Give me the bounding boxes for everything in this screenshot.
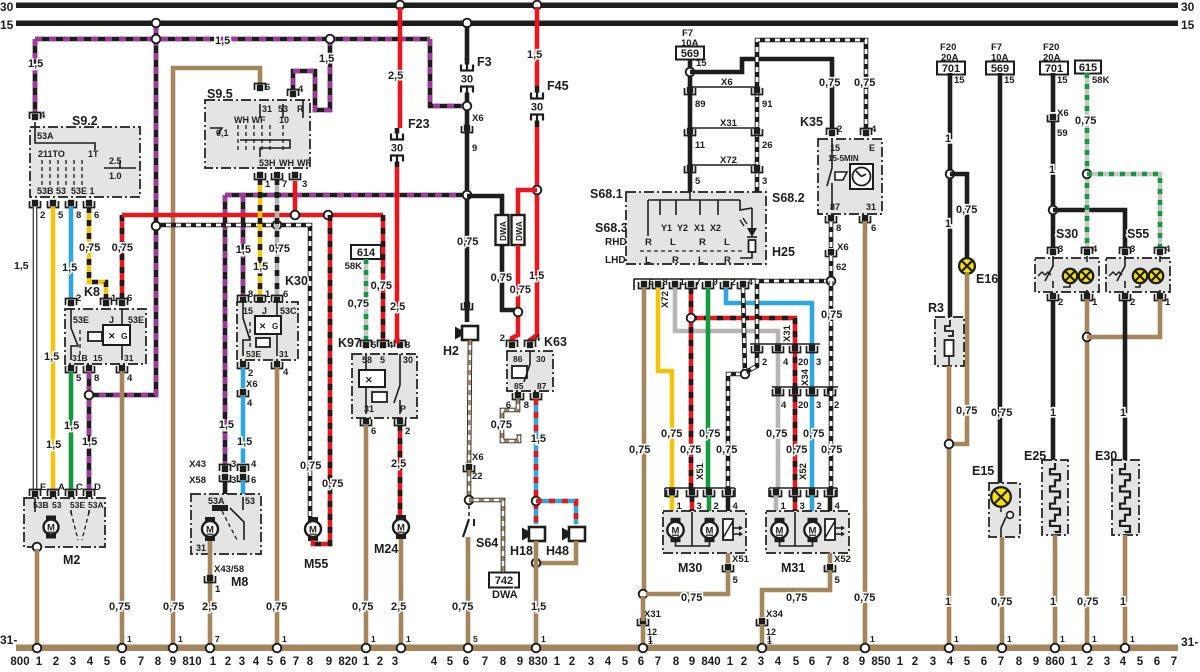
junction violet y39 x156 bbox=[152, 35, 161, 44]
svg-text:F3: F3 bbox=[477, 55, 492, 69]
svg-text:E: E bbox=[869, 143, 875, 153]
horn H48 bbox=[569, 527, 585, 541]
wire brown S30 pin1 to ground track 862 bbox=[1085, 300, 1090, 645]
svg-text:2: 2 bbox=[731, 277, 736, 288]
svg-text:R: R bbox=[724, 255, 731, 266]
svg-text:11: 11 bbox=[695, 140, 706, 151]
junction bus15 x467 bbox=[463, 19, 472, 28]
ground junction x366 bbox=[362, 644, 371, 653]
wire black 701 down to S30 pin3 bbox=[1051, 73, 1056, 112]
svg-text:0,75: 0,75 bbox=[956, 204, 977, 216]
svg-text:4: 4 bbox=[247, 398, 253, 409]
svg-text:LHD: LHD bbox=[605, 255, 626, 266]
wire violet-black x243 branch to K30 pin 8 bbox=[241, 195, 246, 296]
wire red branch to M31 pin3 via X31-20 bbox=[691, 318, 795, 490]
wire black node to K35 pin2 bbox=[690, 59, 832, 129]
svg-text:31: 31 bbox=[364, 404, 374, 414]
ground junction x1087 bbox=[1083, 644, 1092, 653]
svg-text:P: P bbox=[400, 404, 406, 414]
svg-text:3: 3 bbox=[231, 459, 236, 470]
svg-text:31: 31 bbox=[866, 202, 876, 212]
wire violet-black horizontal y39 bbox=[35, 37, 430, 42]
wire yellow-black S9.2 pin6 to K8 pin1 bbox=[89, 207, 106, 298]
wire blue K30 pin2 via X6 to M8 bbox=[241, 368, 246, 388]
svg-text:810: 810 bbox=[182, 656, 201, 668]
svg-text:22: 22 bbox=[472, 471, 483, 482]
svg-text:H18: H18 bbox=[510, 544, 533, 558]
svg-text:0,75: 0,75 bbox=[1077, 596, 1098, 608]
svg-text:9: 9 bbox=[689, 656, 695, 668]
svg-text:742: 742 bbox=[495, 575, 513, 587]
svg-text:0,75: 0,75 bbox=[266, 601, 287, 613]
svg-text:X6: X6 bbox=[721, 77, 733, 88]
wire violet-black from bus 15 down at x156 bbox=[154, 26, 159, 39]
svg-text:M30: M30 bbox=[678, 561, 702, 575]
svg-text:2,5: 2,5 bbox=[390, 301, 405, 313]
svg-text:15: 15 bbox=[954, 75, 965, 86]
S9.5 pin 6 top bbox=[257, 85, 263, 91]
svg-text:0,75: 0,75 bbox=[991, 596, 1012, 608]
svg-text:53: 53 bbox=[52, 500, 62, 510]
wire red bus30 to F45 bbox=[535, 7, 540, 86]
svg-text:2: 2 bbox=[741, 656, 747, 668]
svg-text:1: 1 bbox=[945, 133, 951, 145]
wire black-white x757 ladder down to S68 bbox=[755, 92, 760, 192]
svg-text:D: D bbox=[94, 482, 101, 493]
svg-text:5: 5 bbox=[380, 355, 385, 365]
svg-text:31: 31 bbox=[124, 353, 134, 363]
ground junction x865 bbox=[861, 644, 870, 653]
svg-text:1: 1 bbox=[1050, 596, 1056, 608]
wire black x690 ladder down to S68 bbox=[688, 76, 693, 192]
svg-text:2,5: 2,5 bbox=[391, 458, 406, 470]
svg-text:7: 7 bbox=[655, 656, 661, 668]
wire black X58 to M8 pin 53A bbox=[223, 481, 228, 500]
S68 pins 6 8 1 7 9 2 4 bbox=[641, 281, 647, 287]
svg-text:2: 2 bbox=[912, 656, 918, 668]
wire brown M24 to ground track 822 bbox=[399, 539, 404, 645]
svg-text:8: 8 bbox=[307, 656, 314, 668]
svg-text:53E: 53E bbox=[128, 315, 144, 325]
connector X72 pair 5/3 bbox=[690, 164, 757, 166]
svg-text:4: 4 bbox=[298, 84, 304, 95]
svg-text:4: 4 bbox=[748, 277, 754, 288]
wire brown M31-X52 to X34 ground track 843 bbox=[762, 571, 830, 617]
svg-text:1,5: 1,5 bbox=[236, 244, 251, 256]
wire brown K97 pin6 to ground track 820-1 bbox=[364, 425, 369, 645]
svg-text:0,75: 0,75 bbox=[300, 460, 321, 472]
svg-text:20: 20 bbox=[798, 400, 809, 411]
svg-text:X2: X2 bbox=[710, 223, 721, 233]
svg-text:53E: 53E bbox=[246, 349, 261, 359]
wire brown K30 pin4 to ground track 815 bbox=[275, 368, 280, 645]
wire blue X43 to M8 pin 53 bbox=[241, 481, 246, 497]
svg-text:X6: X6 bbox=[472, 452, 484, 463]
svg-text:840: 840 bbox=[701, 656, 720, 668]
svg-text:87: 87 bbox=[830, 202, 840, 212]
junction blue-red y501 bbox=[532, 497, 541, 506]
svg-text:15: 15 bbox=[0, 18, 14, 32]
svg-text:615: 615 bbox=[1079, 62, 1097, 74]
svg-text:X31: X31 bbox=[782, 324, 793, 342]
svg-text:0,75: 0,75 bbox=[716, 444, 737, 456]
wire blue S68 pin2 to M31 pin2 via X31-3 bbox=[726, 288, 812, 490]
svg-text:4: 4 bbox=[283, 367, 289, 378]
svg-text:K63: K63 bbox=[544, 335, 567, 349]
svg-text:0,75: 0,75 bbox=[112, 242, 133, 254]
junction bus30 x400 bbox=[396, 1, 405, 10]
wire red-black K97 pin2 to M24 bbox=[398, 425, 403, 518]
junction x690 y72 bbox=[686, 68, 695, 77]
svg-text:2,5: 2,5 bbox=[388, 70, 403, 82]
wire brown H48 to junction bbox=[536, 541, 576, 563]
svg-text:26: 26 bbox=[762, 140, 773, 151]
motor M2 symbol bbox=[46, 516, 56, 521]
svg-text:7: 7 bbox=[696, 277, 701, 288]
motor M8 box bbox=[191, 494, 261, 554]
svg-text:30: 30 bbox=[0, 0, 14, 14]
svg-text:1: 1 bbox=[945, 218, 951, 230]
svg-text:RHD: RHD bbox=[605, 237, 627, 248]
svg-text:7: 7 bbox=[138, 656, 144, 668]
alarm unit DWA box 2 bbox=[512, 215, 525, 245]
svg-text:X72: X72 bbox=[660, 291, 671, 308]
wire brown S9.5 pin6 to ground track 809 bbox=[173, 68, 260, 645]
lamp E16 bbox=[959, 258, 975, 274]
svg-text:E16: E16 bbox=[976, 272, 998, 286]
svg-text:J: J bbox=[109, 315, 114, 325]
wire brown R3 to ground track 854 bbox=[947, 366, 952, 645]
svg-text:2: 2 bbox=[1058, 297, 1063, 308]
ground junction x536 bbox=[532, 644, 541, 653]
svg-text:58K: 58K bbox=[1092, 75, 1110, 86]
svg-text:✕: ✕ bbox=[108, 331, 116, 341]
svg-text:0,75: 0,75 bbox=[786, 444, 807, 456]
ground junction x37 bbox=[33, 644, 42, 653]
wire gray-green 614 to K97 pin5 bbox=[364, 259, 369, 341]
svg-text:8: 8 bbox=[76, 210, 81, 221]
wire yellow S68 pin8 to M30 bbox=[658, 288, 672, 490]
svg-text:1,5: 1,5 bbox=[531, 601, 546, 613]
connector bar above M31 bbox=[769, 487, 837, 489]
wire violet-black to S9.2 pin 4 bbox=[33, 39, 38, 113]
svg-text:1: 1 bbox=[406, 634, 411, 644]
svg-text:3: 3 bbox=[588, 656, 594, 668]
S68 internal wiring bbox=[689, 192, 691, 200]
wire green S68 pin9 to M30 pin2 bbox=[706, 288, 711, 490]
wire black F3 down to horn H2 bbox=[465, 99, 470, 322]
wire brown-white branch to 742 DWA bbox=[469, 500, 503, 572]
svg-text:0,75: 0,75 bbox=[457, 236, 478, 248]
svg-text:6: 6 bbox=[94, 210, 99, 221]
connector 614 label box bbox=[351, 245, 381, 259]
svg-text:1,5: 1,5 bbox=[28, 58, 43, 70]
svg-text:L: L bbox=[724, 237, 730, 248]
svg-text:9: 9 bbox=[472, 143, 477, 154]
svg-text:8: 8 bbox=[524, 400, 529, 411]
svg-text:0,75: 0,75 bbox=[699, 428, 720, 440]
svg-text:4: 4 bbox=[1120, 656, 1127, 668]
ground junction x1055 bbox=[1051, 644, 1060, 653]
wire black-white S68 ladder feed to K35 pin4 bbox=[757, 40, 866, 129]
svg-text:6: 6 bbox=[251, 475, 256, 486]
svg-text:53: 53 bbox=[245, 496, 255, 506]
junction brown y563 bbox=[532, 559, 541, 568]
junction F3 black with violet y106 bbox=[463, 102, 472, 111]
wire brown M31 sensor to connector X52 bbox=[828, 553, 833, 563]
svg-text:0,75: 0,75 bbox=[786, 592, 807, 604]
svg-text:1: 1 bbox=[680, 277, 686, 288]
svg-text:1: 1 bbox=[767, 634, 772, 644]
svg-text:6: 6 bbox=[809, 656, 815, 668]
svg-text:7: 7 bbox=[1171, 656, 1177, 668]
S9.5 bottom pins 1 7 3 bbox=[257, 172, 263, 178]
svg-text:4: 4 bbox=[87, 656, 94, 668]
svg-text:0,75: 0,75 bbox=[322, 478, 343, 490]
svg-text:4: 4 bbox=[871, 124, 877, 135]
wire brown-white K63 pin6 stub bbox=[502, 399, 519, 441]
svg-text:6: 6 bbox=[638, 656, 644, 668]
horn H2 bbox=[462, 326, 478, 340]
svg-text:K8: K8 bbox=[84, 285, 100, 299]
wire black-white X31-2 up to K35 net y281 bbox=[757, 281, 831, 344]
svg-text:S9.5: S9.5 bbox=[207, 87, 233, 101]
wire violet-black K8 pin8 to M2 pin D bbox=[87, 372, 92, 490]
wire black S55 pin2 to E30 bbox=[1123, 300, 1128, 460]
svg-text:1,5: 1,5 bbox=[62, 262, 77, 274]
junction red y215 x328 bbox=[324, 211, 333, 220]
svg-text:1: 1 bbox=[1120, 407, 1126, 419]
svg-text:614: 614 bbox=[357, 247, 376, 259]
svg-text:0,75: 0,75 bbox=[452, 601, 473, 613]
motor M8 symbol bbox=[205, 517, 215, 522]
svg-text:7: 7 bbox=[282, 179, 287, 190]
wire violet elbow from y39 to F3 node bbox=[430, 39, 462, 106]
junction on bus15 at x156 bbox=[152, 19, 161, 28]
wire red F45 down to K63 pin4 bbox=[530, 127, 537, 341]
svg-text:0,75: 0,75 bbox=[681, 592, 702, 604]
svg-text:2,5: 2,5 bbox=[391, 601, 406, 613]
svg-text:7: 7 bbox=[215, 634, 220, 644]
svg-text:15: 15 bbox=[243, 306, 253, 316]
svg-text:1: 1 bbox=[1120, 596, 1126, 608]
svg-text:M24: M24 bbox=[374, 542, 398, 556]
svg-text:1,5: 1,5 bbox=[253, 261, 268, 273]
svg-text:G: G bbox=[121, 331, 128, 341]
svg-text:1: 1 bbox=[178, 634, 183, 644]
svg-text:0,75: 0,75 bbox=[854, 592, 875, 604]
wire brown E15 to ground track 857 bbox=[1000, 537, 1005, 645]
svg-text:1,5: 1,5 bbox=[46, 439, 61, 451]
motor M31 right pump bbox=[808, 518, 818, 523]
svg-text:8: 8 bbox=[843, 656, 850, 668]
wire black S30 pin2 to E25 bbox=[1051, 300, 1056, 460]
wire black-white K35 pin8 to X6-62 node bbox=[829, 222, 834, 248]
svg-text:F20: F20 bbox=[940, 42, 956, 53]
svg-text:0,75: 0,75 bbox=[819, 77, 840, 89]
svg-text:3: 3 bbox=[758, 656, 764, 668]
svg-text:4: 4 bbox=[40, 110, 46, 121]
svg-text:5: 5 bbox=[371, 340, 377, 351]
lamp in S55 right bbox=[1149, 269, 1163, 283]
ground junction x122 bbox=[118, 644, 127, 653]
svg-text:5: 5 bbox=[76, 373, 82, 384]
svg-text:9: 9 bbox=[170, 656, 176, 668]
connector X31 pair 11/26 bbox=[690, 127, 757, 129]
svg-text:30: 30 bbox=[1181, 0, 1195, 14]
wire black F3-node to DWA box1 bbox=[467, 196, 502, 215]
svg-text:58: 58 bbox=[362, 355, 372, 365]
svg-text:0,75: 0,75 bbox=[803, 428, 824, 440]
svg-text:J: J bbox=[262, 306, 267, 316]
svg-text:15: 15 bbox=[696, 58, 707, 69]
svg-text:9: 9 bbox=[326, 656, 332, 668]
svg-text:211TO: 211TO bbox=[38, 149, 65, 159]
svg-text:Y1: Y1 bbox=[661, 223, 672, 233]
S9.2 bottom pins 2 5 8 6 bbox=[32, 200, 38, 206]
junction bus30 x537 bbox=[533, 1, 542, 10]
svg-text:1,5: 1,5 bbox=[531, 433, 546, 445]
svg-text:89: 89 bbox=[695, 99, 706, 110]
connector 742 DWA label bbox=[489, 573, 519, 588]
svg-text:4: 4 bbox=[781, 400, 787, 411]
wire gray-green branch to S55 pin4 bbox=[1087, 174, 1160, 248]
svg-text:0,75: 0,75 bbox=[821, 309, 842, 321]
svg-text:R: R bbox=[699, 237, 706, 248]
svg-text:5: 5 bbox=[622, 656, 629, 668]
svg-text:G: G bbox=[272, 322, 278, 331]
svg-text:0,75: 0,75 bbox=[1075, 115, 1096, 127]
svg-text:53E: 53E bbox=[70, 500, 85, 510]
svg-text:8: 8 bbox=[673, 656, 680, 668]
svg-text:3: 3 bbox=[930, 656, 936, 668]
svg-text:31: 31 bbox=[196, 543, 206, 553]
svg-text:1: 1 bbox=[897, 656, 904, 668]
wire brown K8 pin4 to ground track 806 bbox=[120, 372, 125, 645]
junction brown x641 y594 bbox=[639, 590, 648, 599]
svg-text:0,75: 0,75 bbox=[269, 243, 290, 255]
wire brown S68 pin6 to ground track 836 bbox=[642, 288, 647, 592]
ground junction x949 bbox=[945, 644, 954, 653]
svg-text:X58: X58 bbox=[189, 475, 206, 486]
motor M31 left pump bbox=[775, 518, 785, 523]
svg-text:53H: 53H bbox=[259, 158, 276, 168]
svg-text:2: 2 bbox=[837, 124, 842, 135]
svg-text:A: A bbox=[58, 482, 65, 493]
junction red x537 y190 bbox=[533, 186, 542, 195]
svg-text:S68.2: S68.2 bbox=[772, 191, 805, 205]
svg-text:H25: H25 bbox=[772, 245, 795, 259]
svg-text:1: 1 bbox=[541, 634, 546, 644]
svg-text:30: 30 bbox=[403, 355, 413, 365]
svg-text:X6: X6 bbox=[837, 242, 849, 253]
svg-text:S55: S55 bbox=[1127, 227, 1149, 241]
svg-text:3: 3 bbox=[816, 357, 821, 368]
svg-text:86: 86 bbox=[513, 354, 523, 364]
svg-text:5: 5 bbox=[733, 575, 739, 586]
wire violet-black elbow to S9.5 pin 4 bbox=[293, 39, 330, 110]
svg-text:1.0: 1.0 bbox=[109, 171, 122, 181]
svg-text:X6: X6 bbox=[472, 113, 484, 124]
svg-text:R: R bbox=[672, 255, 679, 266]
svg-text:1,5: 1,5 bbox=[527, 49, 542, 61]
lamp E15 bbox=[991, 487, 1011, 507]
svg-text:6: 6 bbox=[871, 223, 876, 234]
svg-text:8: 8 bbox=[248, 289, 253, 300]
motor M30 right pump bbox=[705, 518, 715, 523]
svg-text:15: 15 bbox=[1057, 75, 1068, 86]
wire red-black from red bus y215 to K8 pin6 bbox=[120, 215, 125, 298]
junction brown x949 y444 bbox=[945, 440, 954, 449]
svg-text:R: R bbox=[645, 237, 652, 248]
svg-text:2: 2 bbox=[1130, 297, 1135, 308]
svg-text:0,75: 0,75 bbox=[352, 601, 373, 613]
svg-text:0,75: 0,75 bbox=[821, 444, 842, 456]
junction red y215 x295 bbox=[291, 211, 300, 220]
wire black bus15 to F3 bbox=[465, 26, 470, 60]
svg-text:3: 3 bbox=[1130, 244, 1135, 255]
svg-text:2,5: 2,5 bbox=[202, 601, 217, 613]
svg-text:5: 5 bbox=[58, 210, 64, 221]
svg-text:2: 2 bbox=[500, 333, 505, 344]
svg-text:1: 1 bbox=[363, 656, 370, 668]
wire brown E25 to ground track 861 bbox=[1053, 535, 1058, 645]
S68 bottom connector bar bbox=[634, 278, 756, 280]
junction K8 ground net x89 y395 bbox=[85, 391, 94, 400]
wire brown K35 pin6 to ground track 852 bbox=[863, 222, 868, 645]
svg-text:1: 1 bbox=[1165, 297, 1171, 308]
bus bar 30 bbox=[16, 3, 1178, 9]
wire red DWA2 down to K63 pin2 bbox=[512, 245, 518, 341]
junction y226 x156 bbox=[152, 222, 161, 231]
svg-text:1: 1 bbox=[1050, 407, 1056, 419]
svg-text:8: 8 bbox=[500, 656, 507, 668]
svg-text:30: 30 bbox=[391, 143, 403, 155]
svg-text:DWA: DWA bbox=[514, 221, 524, 241]
svg-text:5: 5 bbox=[447, 656, 454, 668]
svg-text:4: 4 bbox=[947, 656, 954, 668]
wire black-white X31 pin2 to junction bbox=[746, 348, 757, 372]
svg-text:X52: X52 bbox=[834, 554, 851, 565]
svg-text:53B 53: 53B 53 bbox=[37, 186, 66, 196]
junction brown x1087 y337 bbox=[1083, 333, 1092, 342]
svg-text:91: 91 bbox=[762, 99, 773, 110]
svg-text:30: 30 bbox=[461, 74, 473, 86]
svg-text:1: 1 bbox=[1060, 634, 1065, 644]
svg-text:9: 9 bbox=[517, 656, 523, 668]
svg-text:DWA: DWA bbox=[498, 221, 508, 241]
svg-text:1: 1 bbox=[648, 634, 653, 644]
svg-text:X72: X72 bbox=[720, 155, 737, 166]
svg-text:1: 1 bbox=[215, 584, 221, 595]
svg-text:3: 3 bbox=[231, 475, 236, 486]
svg-text:F7: F7 bbox=[991, 42, 1002, 53]
svg-text:830: 830 bbox=[528, 656, 547, 668]
svg-text:F20: F20 bbox=[1043, 42, 1059, 53]
ground junction x277 bbox=[273, 644, 282, 653]
wire gray-green 615 down to S30 pin4 bbox=[1085, 73, 1090, 248]
svg-text:0,75: 0,75 bbox=[766, 428, 787, 440]
svg-text:1T: 1T bbox=[88, 149, 99, 159]
svg-text:L: L bbox=[645, 255, 651, 266]
wire black-white x831 down to M31 pin4 via X34-2 bbox=[829, 281, 834, 490]
svg-text:S68.1: S68.1 bbox=[590, 187, 623, 201]
svg-text:3: 3 bbox=[816, 400, 821, 411]
svg-text:58K: 58K bbox=[345, 261, 363, 272]
svg-text:6: 6 bbox=[981, 656, 987, 668]
svg-text:5: 5 bbox=[104, 656, 111, 668]
svg-text:1: 1 bbox=[1049, 164, 1055, 176]
